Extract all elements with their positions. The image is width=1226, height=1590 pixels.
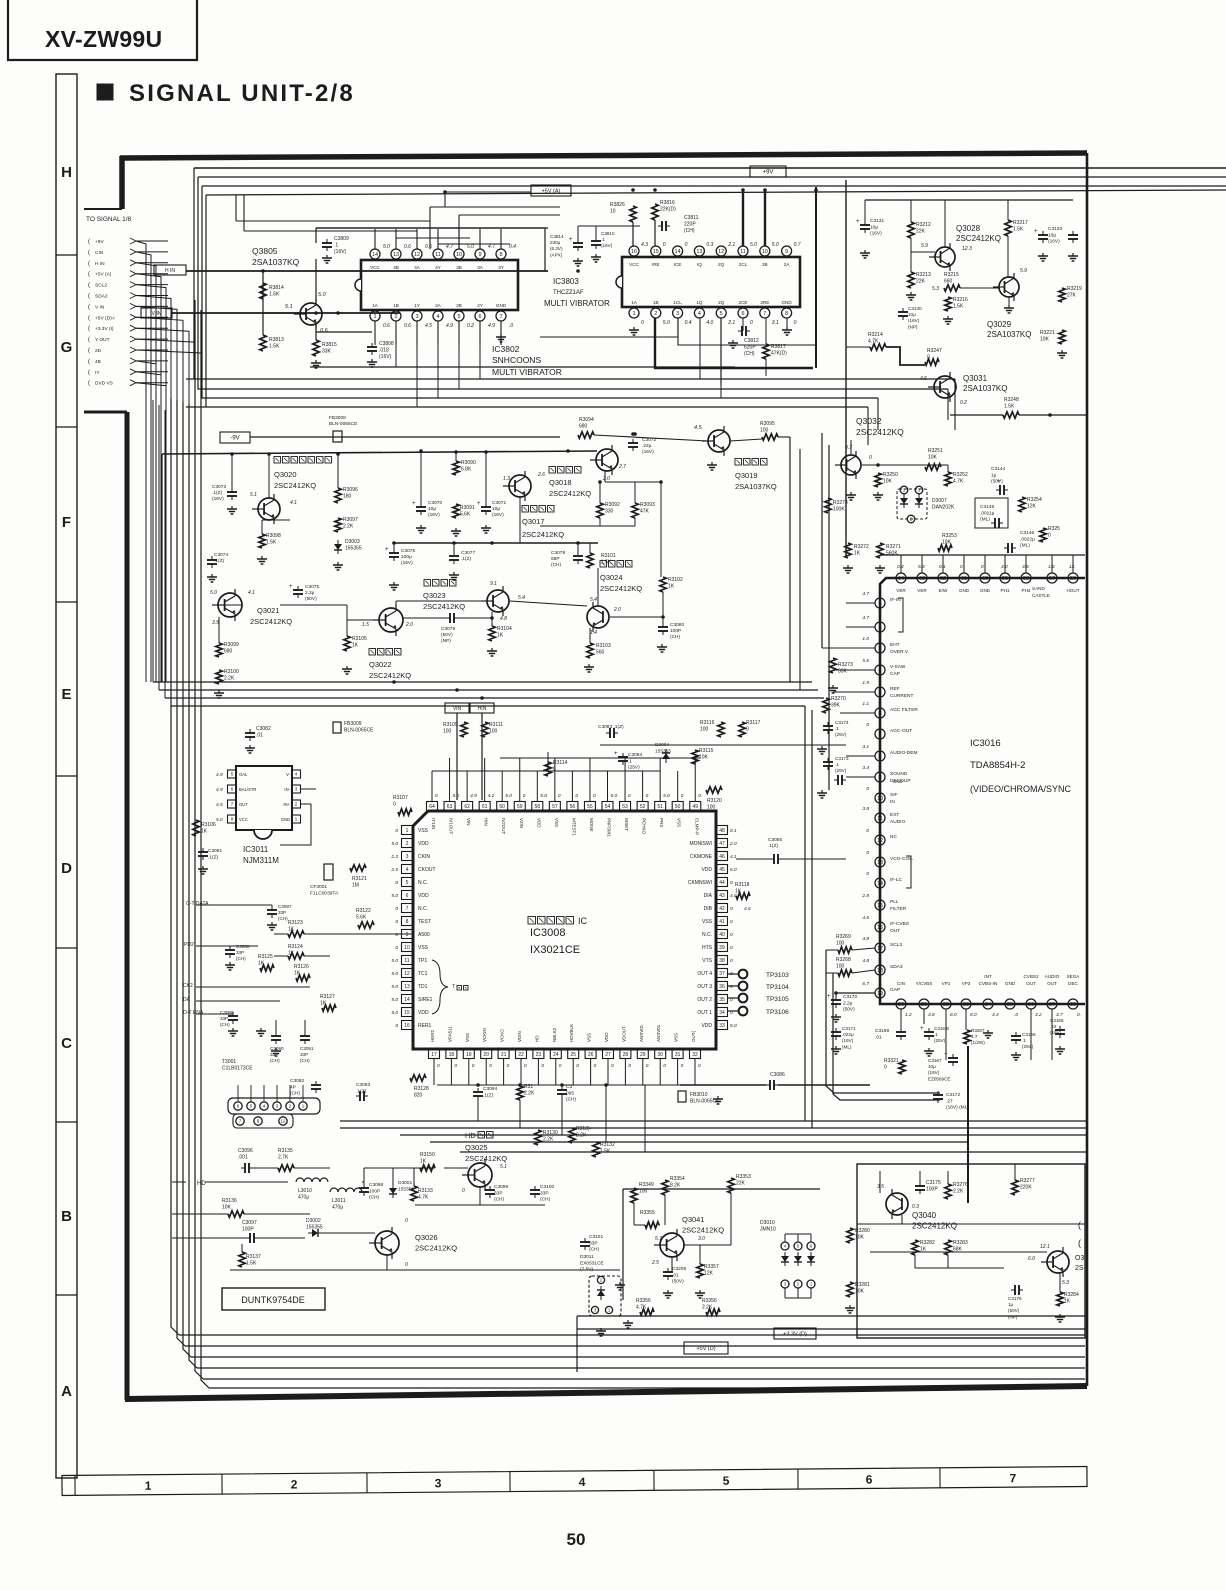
svg-text:(ML): (ML) (842, 1044, 852, 1049)
svg-text:R3117: R3117 (746, 720, 761, 726)
capacitor C3133 (1038, 234, 1048, 236)
svg-text:0: 0 (575, 793, 578, 799)
svg-text:CAP: CAP (890, 671, 900, 677)
resistor R3106 (193, 820, 199, 836)
svg-text:14: 14 (877, 881, 883, 887)
svg-text:10K: 10K (222, 1205, 232, 1211)
capacitor C3077 (449, 555, 459, 557)
resistor R3212 (908, 222, 914, 238)
ground R3213 (910, 292, 912, 295)
svg-text:33P: 33P (540, 1190, 549, 1196)
svg-text:R3277: R3277 (1020, 1178, 1035, 1184)
svg-text:25: 25 (570, 1052, 576, 1058)
svg-text:GAL: GAL (239, 772, 248, 777)
svg-text:100: 100 (760, 428, 769, 434)
wire Q3019 output down (789, 437, 791, 682)
svg-text:C3173: C3173 (835, 756, 849, 761)
svg-text:C3810: C3810 (601, 231, 615, 236)
svg-text:IC3016: IC3016 (970, 738, 1001, 749)
svg-text:Q3026: Q3026 (415, 1233, 438, 1242)
svg-text:VSS: VSS (702, 919, 713, 925)
rail C3078 (394, 542, 598, 544)
resistor R3272 (845, 543, 851, 558)
IC IC3011 body (236, 766, 292, 830)
capacitor C3812 (741, 326, 743, 336)
svg-text:R3270: R3270 (831, 696, 846, 702)
svg-text:(25V): (25V) (934, 1038, 946, 1043)
IC3016 pin 24 (983, 999, 993, 1009)
resistor R3349 (631, 1188, 637, 1203)
svg-text:18: 18 (449, 1052, 455, 1058)
svg-text:0: 0 (960, 564, 963, 570)
IC3016 pin 21 (919, 999, 929, 1009)
svg-text:Q3022: Q3022 (369, 660, 392, 669)
svg-text:0: 0 (523, 793, 526, 799)
capacitor C3085 (773, 854, 775, 864)
svg-text:7: 7 (763, 311, 766, 317)
wire R3214 (846, 346, 870, 348)
svg-text:+: + (477, 501, 481, 507)
svg-text:4.1: 4.1 (248, 590, 255, 596)
svg-text:VPA511: VPA511 (447, 1026, 452, 1042)
resistor R3355 (645, 1222, 659, 1228)
svg-text:R3826: R3826 (610, 202, 625, 208)
IC3803 pin 3 (673, 308, 683, 318)
svg-text:Q3025: Q3025 (465, 1143, 488, 1152)
svg-text:C3167: C3167 (928, 1058, 942, 1063)
svg-text:R3813: R3813 (269, 337, 284, 343)
IC3802 pin 12 (412, 249, 422, 259)
ground R3104 (491, 648, 493, 651)
svg-text:IN-: IN- (284, 787, 290, 792)
svg-text:GAP: GAP (890, 987, 900, 993)
svg-text:R3132: R3132 (600, 1142, 615, 1148)
IC3008 pin 45 (717, 865, 728, 874)
svg-text:A: A (61, 1383, 72, 1400)
capacitor C3167 (948, 1057, 958, 1059)
svg-text:E/W: E/W (939, 588, 948, 593)
capacitor C3078 (573, 555, 583, 557)
vertical wires right of IC3008 (821, 433, 823, 648)
svg-text:0: 0 (1048, 533, 1051, 539)
svg-text:5: 5 (720, 311, 723, 317)
IC3802 pin 8 (496, 249, 506, 259)
ground C3168 (928, 1048, 930, 1051)
left wire bundle (171, 398, 179, 1335)
svg-text:4.7: 4.7 (446, 244, 453, 250)
IC3008 pin 53 (620, 802, 631, 811)
svg-text:18: 18 (877, 968, 883, 974)
ferrite FB3010 (678, 1091, 686, 1102)
resistor R3124 (288, 953, 304, 959)
wire C3085 (736, 858, 770, 860)
svg-text:O-T DATA: O-T DATA (186, 901, 209, 907)
svg-text:R3214: R3214 (868, 332, 883, 338)
svg-text:R3271: R3271 (886, 544, 901, 550)
svg-text:0.6: 0.6 (383, 323, 390, 329)
IC3016 pin 59 (1000, 573, 1010, 583)
capacitor C3090 (271, 1035, 281, 1037)
resistor R3090 (453, 461, 459, 475)
resistor R3095 (762, 434, 778, 440)
capacitor C3094 (473, 1091, 483, 1093)
svg-text:330: 330 (605, 509, 614, 515)
svg-text:5.1: 5.1 (250, 492, 257, 498)
svg-text:27K: 27K (1067, 293, 1077, 299)
svg-text:OUT 2: OUT 2 (697, 997, 712, 1003)
svg-text:2SA1037KQ: 2SA1037KQ (963, 384, 1007, 393)
svg-text:3A: 3A (477, 265, 484, 270)
svg-text:1K: 1K (288, 927, 295, 933)
svg-text:VSS: VSS (587, 1033, 592, 1042)
svg-text:R3107: R3107 (393, 795, 408, 801)
svg-text:0: 0 (593, 793, 596, 799)
svg-text:R3130: R3130 (543, 1130, 558, 1136)
wires IC3016 top pins up (900, 555, 902, 573)
svg-text:2SC2412KQ: 2SC2412KQ (956, 234, 1001, 243)
svg-text:R3125: R3125 (258, 954, 273, 960)
IC3008 pin 10 (402, 943, 413, 952)
transistor Q3805 (300, 303, 322, 325)
resistor R3115 (692, 750, 698, 764)
svg-text:.22: .22 (1050, 1024, 1057, 1029)
IC3008 pin 8 (402, 917, 413, 926)
svg-text:22: 22 (518, 1052, 524, 1058)
svg-text:NC: NC (890, 834, 897, 840)
svg-text:R3253: R3253 (942, 533, 957, 539)
svg-text:R3219: R3219 (1067, 286, 1082, 292)
capacitor C3166 (1011, 1035, 1021, 1037)
svg-text:.1: .1 (628, 758, 632, 764)
svg-text:HOUT: HOUT (1066, 588, 1079, 593)
IC3008 pin 35 (717, 995, 728, 1004)
svg-text:R3251: R3251 (928, 448, 943, 454)
svg-text:.018: .018 (379, 348, 389, 354)
resistor R3269 (838, 947, 852, 953)
svg-text:1K: 1K (288, 951, 295, 957)
IC3008 pin 13 (402, 982, 413, 991)
svg-text:R3357: R3357 (704, 1264, 719, 1270)
rail -9V (250, 436, 560, 438)
svg-text:GND: GND (781, 300, 792, 305)
svg-text:39: 39 (719, 945, 725, 951)
svg-text:4.7K: 4.7K (418, 1195, 429, 1201)
svg-text:(: ( (88, 315, 90, 321)
capacitor C3131 (860, 224, 870, 226)
svg-text:C3083 .1(Z): C3083 .1(Z) (598, 724, 624, 730)
svg-text:5: 5 (457, 314, 460, 320)
resistor R3267 (964, 1030, 970, 1044)
svg-text:25: 25 (1007, 1002, 1013, 1008)
IC3008 pin 63 (444, 802, 455, 811)
mid rail verticals (152, 400, 154, 682)
resistor R3277 (1012, 1180, 1018, 1195)
svg-text:(16V): (16V) (212, 496, 224, 502)
svg-text:2Y: 2Y (477, 303, 483, 308)
svg-text:60: 60 (499, 804, 505, 810)
svg-text:1K: 1K (668, 584, 675, 590)
resistor R3097 (335, 518, 341, 532)
svg-text:14: 14 (404, 997, 410, 1003)
ground C3082 (249, 745, 251, 748)
IC3008 test point circles (739, 970, 748, 979)
svg-text:0: 0 (866, 786, 869, 792)
svg-text:VP1: VP1 (942, 981, 951, 986)
resistor R3133 (411, 1186, 417, 1201)
diode D3011 zener (589, 1276, 621, 1316)
svg-text:SAND: SAND (1032, 586, 1045, 591)
svg-text:Q3020: Q3020 (274, 470, 297, 479)
svg-text:Q3805: Q3805 (252, 246, 278, 256)
svg-text:11: 11 (877, 816, 883, 822)
resistor R3817 (763, 344, 769, 359)
svg-text:R3105: R3105 (352, 636, 367, 642)
svg-text:O-T ENA: O-T ENA (183, 1010, 204, 1016)
svg-text:+: + (289, 584, 293, 590)
svg-text:100P: 100P (369, 1188, 380, 1194)
svg-text:9.1: 9.1 (490, 581, 497, 587)
svg-text:2: 2 (291, 1477, 298, 1491)
IC3008 pin 44 (717, 878, 728, 887)
rail clamp top (162, 451, 597, 454)
svg-text:(25V): (25V) (628, 765, 640, 771)
svg-text:MULTI VIBRATOR: MULTI VIBRATOR (492, 367, 562, 377)
vertical x816 (815, 187, 817, 368)
svg-text:VCO-COIL: VCO-COIL (890, 856, 914, 862)
svg-text:V-: V- (286, 772, 291, 777)
svg-text:4.6: 4.6 (862, 915, 869, 921)
transistor Q3026 (375, 1231, 399, 1255)
svg-text:V IN: V IN (152, 311, 162, 317)
svg-text:43: 43 (719, 893, 725, 899)
svg-text:C3133: C3133 (1048, 226, 1062, 232)
svg-text:HIN: HIN (478, 706, 487, 712)
svg-text:(ML): (ML) (980, 517, 990, 523)
svg-text:58: 58 (1023, 576, 1029, 582)
IC3008 pin 41 (717, 917, 728, 926)
svg-text:4.3: 4.3 (641, 242, 648, 248)
svg-text:0.1: 0.1 (730, 828, 737, 834)
svg-text:(: ( (88, 250, 90, 256)
resistor R3111 (482, 722, 488, 737)
svg-text:2SC2412KQ: 2SC2412KQ (250, 617, 292, 626)
svg-text:TC1: TC1 (418, 971, 428, 977)
resistor R3216 (945, 297, 951, 311)
svg-text:R3101: R3101 (601, 553, 616, 559)
svg-text:0: 0 (685, 242, 688, 248)
svg-text:(: ( (88, 370, 90, 376)
svg-text:5.0: 5.0 (391, 958, 398, 964)
resistor R3255 (1040, 528, 1046, 542)
svg-text:TD1: TD1 (418, 984, 428, 990)
svg-text:+3.3V (I): +3.3V (I) (95, 326, 114, 332)
svg-text:MONISWI: MONISWI (690, 841, 713, 847)
svg-text:100: 100 (443, 729, 452, 735)
IC3008 pin 27 (603, 1050, 614, 1059)
IC3016 pin 15 (875, 900, 885, 910)
IC3802 pin 14 (370, 249, 380, 259)
svg-text:1: 1 (406, 828, 409, 834)
svg-text:2SA1037KQ: 2SA1037KQ (987, 330, 1031, 339)
svg-text:C3074: C3074 (214, 552, 228, 558)
svg-text:C3814: C3814 (550, 234, 564, 239)
svg-text:49: 49 (692, 804, 698, 810)
svg-text:R3127: R3127 (320, 994, 335, 1000)
svg-text:(APX): (APX) (550, 252, 563, 257)
svg-text:R3128: R3128 (414, 1086, 429, 1092)
ground R3105 (346, 666, 348, 669)
svg-text:4.8: 4.8 (862, 958, 869, 964)
svg-text:35: 35 (719, 997, 725, 1003)
svg-text:+: + (569, 237, 573, 243)
svg-text:.1: .1 (934, 1032, 938, 1037)
wires IC3008 top pins (431, 771, 433, 801)
IC3008 pin 39 (717, 943, 728, 952)
svg-text:26: 26 (1028, 1002, 1034, 1008)
ground pin24 (987, 1030, 989, 1033)
svg-text:19: 19 (877, 991, 883, 997)
outer border right (1086, 153, 1089, 1386)
svg-text:16: 16 (404, 1023, 410, 1029)
svg-text:61: 61 (961, 576, 967, 582)
svg-text:(CH): (CH) (369, 1195, 380, 1201)
svg-text:0: 0 (395, 828, 398, 834)
svg-text:2.2K: 2.2K (524, 1091, 535, 1097)
svg-text:22: 22 (943, 1002, 949, 1008)
svg-text:C3093: C3093 (356, 1082, 370, 1088)
heavy outer border left upper stub (119, 156, 125, 209)
svg-text:(: ( (88, 294, 90, 300)
svg-text:0: 0 (663, 1063, 666, 1069)
wire fan from connector (136, 241, 146, 682)
svg-text:TP3104: TP3104 (766, 984, 789, 991)
resistor R3281 (847, 1282, 853, 1297)
IC3011 pin 6 (228, 785, 237, 793)
svg-text:IN+: IN+ (283, 802, 290, 807)
svg-text:SCL2: SCL2 (95, 283, 107, 289)
wires top right cluster (865, 199, 1073, 201)
IC3008 pin 29 (637, 1050, 648, 1059)
svg-text:2: 2 (406, 841, 409, 847)
capacitor C3074 (207, 559, 217, 561)
resistor R3358 (706, 1309, 720, 1315)
svg-text:100: 100 (836, 941, 845, 947)
IC3016 pin 63 (917, 573, 927, 583)
svg-text:(CH): (CH) (566, 1097, 577, 1103)
resistor R3137 (239, 1252, 245, 1267)
svg-text:(: ( (88, 239, 90, 245)
ground IC3803 pin1 (633, 327, 635, 330)
svg-text:62: 62 (940, 576, 946, 582)
IC3008 pin 52 (637, 802, 648, 811)
IC3802 pin 10 (454, 249, 464, 259)
svg-text:6.8K: 6.8K (461, 467, 472, 473)
svg-text:4.5: 4.5 (694, 425, 703, 431)
capacitor C3082 (245, 732, 255, 734)
label -9V box (220, 432, 250, 443)
ground C3133 (1042, 253, 1044, 256)
IC3802 pin 4 (433, 311, 443, 321)
svg-text:100P: 100P (926, 1187, 938, 1193)
svg-text:1K: 1K (201, 829, 208, 835)
svg-text:Y OUT: Y OUT (95, 337, 110, 343)
svg-text:0: 0 (750, 320, 753, 326)
svg-text:(25V): (25V) (835, 732, 847, 737)
svg-text:59: 59 (517, 804, 523, 810)
svg-text:21: 21 (501, 1052, 507, 1058)
svg-text:(16V): (16V) (379, 354, 392, 360)
capacitor C3081 (198, 851, 208, 853)
svg-text:2.2K: 2.2K (702, 1305, 713, 1311)
svg-text:5.6K: 5.6K (460, 512, 471, 518)
ground HD section (619, 1282, 621, 1285)
ground R3284 (1059, 1314, 1061, 1317)
svg-text:1.5K: 1.5K (600, 1149, 611, 1155)
svg-text:R3321: R3321 (884, 1058, 899, 1064)
svg-text:R3269: R3269 (836, 934, 851, 940)
junction dots (230, 452, 234, 456)
svg-text:R3126: R3126 (294, 964, 309, 970)
svg-text:8: 8 (406, 919, 409, 925)
IC3016 pin 58 (1021, 573, 1031, 583)
svg-text:DVD VS: DVD VS (95, 381, 113, 387)
capacitor C3091 (300, 1035, 310, 1037)
label VIN box (445, 703, 469, 713)
capacitor C3088 (225, 949, 235, 951)
wires connector (237, 1085, 239, 1101)
svg-text:(16V): (16V) (842, 1038, 854, 1043)
svg-text:C3176: C3176 (1008, 1296, 1022, 1301)
capacitor C3097 (249, 1233, 251, 1243)
svg-text:R3217: R3217 (1013, 220, 1028, 226)
ground C3814 (577, 258, 579, 261)
svg-text:+5V (D)-I: +5V (D)-I (95, 315, 115, 321)
svg-text:2.1: 2.1 (727, 242, 735, 248)
svg-text:11: 11 (740, 249, 746, 255)
svg-text:(CH): (CH) (744, 351, 755, 357)
resistor R3814 (260, 283, 266, 299)
svg-text:C3070: C3070 (428, 500, 442, 506)
svg-text:G: G (61, 339, 73, 356)
svg-text:46: 46 (719, 854, 725, 860)
resistor R3093 (632, 503, 638, 518)
resistor R3100 (216, 670, 222, 684)
svg-text:63: 63 (447, 804, 453, 810)
svg-text:10μ: 10μ (870, 224, 878, 230)
resistor R3127 (322, 1005, 336, 1011)
svg-text:EX0531CE: EX0531CE (580, 1260, 604, 1266)
svg-text:.1(Z): .1(Z) (461, 556, 472, 562)
capacitor C3080 (658, 626, 668, 628)
IC3802 pin 6 (475, 311, 485, 321)
svg-text:R3212: R3212 (916, 222, 931, 228)
IC3008 pin 25 (568, 1050, 579, 1059)
svg-text:2Q: 2Q (718, 262, 725, 267)
svg-text:VDD: VDD (418, 893, 429, 899)
IC3802 pin 9 (475, 249, 485, 259)
svg-text:7: 7 (1010, 1471, 1017, 1485)
svg-text:4.6: 4.6 (920, 376, 927, 382)
svg-text:VDIN: VDIN (517, 1031, 522, 1042)
svg-text:1.9: 1.9 (862, 680, 869, 686)
svg-text:0: 0 (454, 1063, 457, 1069)
resistor R3123 (288, 931, 304, 937)
vertical top-right box (845, 180, 847, 557)
svg-text:0: 0 (405, 1262, 408, 1268)
ground C3171 (835, 1046, 837, 1049)
svg-text:2Q: 2Q (718, 300, 725, 305)
svg-text:+3.3V (D): +3.3V (D) (783, 1331, 807, 1337)
